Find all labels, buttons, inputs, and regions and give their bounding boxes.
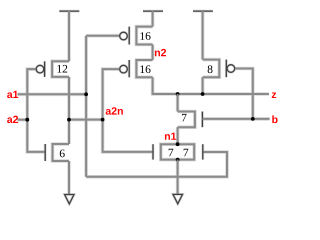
node dot z at n7 xyxy=(176,92,180,96)
transistor M4 pmos 8 channel (mirrored) xyxy=(203,60,220,78)
transistor M6 nmos 7 single (mirrored) xyxy=(178,112,195,128)
transistor M3 gate bar xyxy=(128,60,130,77)
soft halo underlay for all strokes xyxy=(18,11,270,195)
wire a2 gate net vertical xyxy=(27,69,44,152)
node dot z at pmos8 xyxy=(201,92,205,96)
wire nmos6 source to ground xyxy=(68,161,70,195)
node dot left xyxy=(67,118,71,122)
wire pmos16 drain down to z xyxy=(153,77,269,94)
wire a1 horizontal xyxy=(18,93,87,95)
node dot a1 junction xyxy=(84,92,88,96)
transistor M4 gate bar xyxy=(225,60,227,78)
transistor M5 nmos 6 channel xyxy=(53,144,70,161)
transistor M5 nmos 6 gate bar xyxy=(44,144,46,161)
wire a2 horizontal from label xyxy=(18,119,28,121)
transistor M7 M8 nmos 7 7 pair box xyxy=(161,144,194,159)
node dot b xyxy=(251,117,255,121)
label z xyxy=(272,92,276,98)
value label 12 xyxy=(57,65,67,73)
wire a1 vertical riser xyxy=(85,36,87,177)
vdd symbol 2 xyxy=(143,10,163,12)
vdd symbol 3 xyxy=(193,10,213,12)
value label 8 xyxy=(208,65,213,73)
wire n7 drain up to z xyxy=(177,94,179,112)
node dot n1 top xyxy=(176,142,180,146)
value label 7 single xyxy=(182,114,187,122)
node dot n1 bottom xyxy=(176,158,180,162)
wire b gate xyxy=(202,118,269,120)
label a1 xyxy=(7,91,18,98)
wire a2n gate wire and vertical xyxy=(103,69,120,151)
wire vdd1 stem xyxy=(68,11,70,61)
wire vdd2 stem xyxy=(152,11,154,27)
transistor M3 pmos 16 bottom channel xyxy=(136,60,152,77)
transistor M4 bubble xyxy=(227,65,235,73)
ground symbol 2 xyxy=(173,194,183,203)
wire vdd3 stem xyxy=(202,11,204,60)
transistor M6 gate bar xyxy=(201,112,203,128)
transistor M2 bubble xyxy=(120,32,128,40)
transistor M2 gate bar xyxy=(128,27,130,45)
transistor M1 pmos 12 channel xyxy=(52,61,69,77)
node dot a2n xyxy=(101,118,105,122)
wire n2 between stacked pmos xyxy=(152,45,154,61)
transistor M8 gate bar xyxy=(202,144,204,159)
value label 7 right xyxy=(184,149,189,157)
wire a1 to right nmos7 gate xyxy=(86,152,227,177)
value label 16 bottom xyxy=(140,65,150,73)
wire drain of M1 down to nmos 6 xyxy=(68,77,70,144)
value label 6 xyxy=(60,150,65,158)
transistor M3 bubble xyxy=(120,65,128,73)
wire n1 pair to ground xyxy=(177,160,179,195)
label a2n xyxy=(106,107,123,114)
value label 16 top xyxy=(140,32,150,40)
transistor M1 bubble xyxy=(36,65,44,73)
label b xyxy=(272,115,277,123)
transistor M1 gate bar xyxy=(44,61,46,77)
node dot a2 junction xyxy=(25,118,29,122)
transistor M2 pmos 16 top channel xyxy=(136,27,152,45)
wire a2n to left nmos7 gate xyxy=(103,150,153,153)
wire top pmos16 gate xyxy=(86,35,119,37)
wire pmos8 gate to b xyxy=(235,69,253,119)
wire pmos8 drain to z xyxy=(202,77,204,94)
label n1 xyxy=(165,133,176,140)
label n2 xyxy=(155,49,166,56)
ground symbol 1 xyxy=(65,195,74,204)
wire n7 source down to n1 xyxy=(177,127,179,144)
wire mid horizontal a2 segment xyxy=(69,119,103,121)
value label 7 left xyxy=(169,149,174,157)
vdd symbol 1 xyxy=(59,10,79,12)
label a2 xyxy=(7,116,18,123)
transistor M7 gate bar xyxy=(152,144,154,159)
